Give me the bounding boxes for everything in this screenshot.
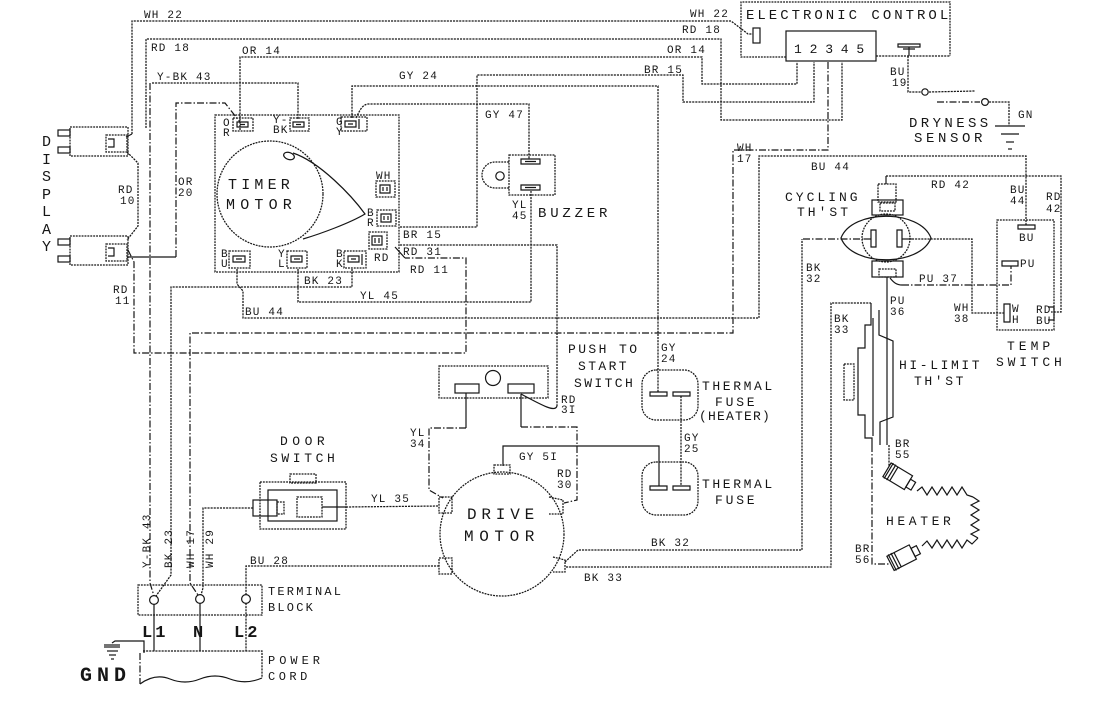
svg-text:CYCLING: CYCLING [785, 190, 861, 205]
svg-text:WH 22: WH 22 [144, 10, 183, 22]
svg-text:BU: BU [1036, 316, 1052, 328]
svg-text:BK 23: BK 23 [304, 276, 343, 288]
svg-text:L: L [278, 259, 286, 271]
svg-text:RD 31: RD 31 [403, 247, 442, 259]
svg-text:TEMP: TEMP [1007, 339, 1054, 354]
svg-text:THERMAL: THERMAL [702, 477, 775, 492]
svg-text:FUSE: FUSE [715, 493, 757, 508]
svg-text:PU: PU [1020, 259, 1036, 271]
svg-text:Y: Y [336, 127, 344, 139]
svg-text:HEATER: HEATER [886, 514, 954, 529]
svg-text:42: 42 [1046, 204, 1062, 216]
svg-text:32: 32 [806, 274, 822, 286]
svg-text:POWER: POWER [268, 654, 324, 668]
svg-text:SWITCH: SWITCH [574, 376, 635, 391]
svg-text:BUZZER: BUZZER [538, 206, 611, 222]
svg-text:BK 32: BK 32 [651, 538, 690, 550]
svg-text:RD 18: RD 18 [151, 43, 190, 55]
svg-text:BU: BU [1019, 233, 1035, 245]
svg-text:BK: BK [273, 125, 289, 137]
svg-text:BK 23: BK 23 [164, 529, 176, 568]
svg-text:TH'ST: TH'ST [797, 205, 851, 220]
svg-text:R: R [223, 128, 231, 140]
svg-text:RD 11: RD 11 [410, 265, 449, 277]
svg-text:44: 44 [1010, 196, 1026, 208]
svg-text:U: U [221, 259, 229, 271]
svg-text:56: 56 [855, 555, 871, 567]
svg-text:DOOR: DOOR [280, 434, 329, 449]
svg-text:SWITCH: SWITCH [996, 355, 1066, 370]
svg-text:BLOCK: BLOCK [268, 601, 315, 615]
svg-text:YL 35: YL 35 [371, 494, 410, 506]
svg-text:BK 33: BK 33 [584, 573, 623, 585]
svg-text:L: L [42, 204, 51, 221]
svg-text:Y-BK 43: Y-BK 43 [142, 513, 154, 568]
svg-text:RD: RD [1046, 192, 1062, 204]
svg-text:45: 45 [512, 211, 528, 223]
svg-text:3I: 3I [561, 405, 577, 417]
svg-text:DRYNESS: DRYNESS [909, 116, 992, 132]
svg-text:FUSE: FUSE [715, 395, 757, 410]
svg-text:Y-BK 43: Y-BK 43 [157, 72, 212, 84]
svg-text:PUSH TO: PUSH TO [568, 342, 639, 357]
svg-text:OR 14: OR 14 [242, 46, 281, 58]
svg-text:L1: L1 [142, 624, 168, 643]
svg-text:10: 10 [120, 196, 136, 208]
svg-text:TH'ST: TH'ST [914, 374, 966, 389]
svg-text:A: A [42, 222, 51, 239]
svg-text:20: 20 [178, 188, 194, 200]
svg-text:GN: GN [1018, 110, 1034, 122]
svg-text:TIMER: TIMER [228, 177, 294, 194]
svg-text:MOTOR: MOTOR [226, 197, 297, 214]
svg-text:THERMAL: THERMAL [702, 379, 775, 394]
svg-text:P: P [42, 187, 51, 204]
svg-text:34: 34 [410, 439, 426, 451]
svg-text:BU 44: BU 44 [245, 307, 284, 319]
svg-text:H: H [1012, 315, 1020, 327]
svg-text:GND: GND [80, 665, 131, 688]
svg-text:BU 44: BU 44 [811, 162, 850, 174]
svg-text:BU 28: BU 28 [250, 556, 289, 568]
svg-text:RD 18: RD 18 [682, 25, 721, 37]
svg-text:WH 22: WH 22 [690, 9, 729, 21]
svg-text:S: S [42, 169, 51, 186]
svg-text:GY 5I: GY 5I [519, 452, 558, 464]
svg-text:ELECTRONIC CONTROL: ELECTRONIC CONTROL [746, 8, 951, 24]
svg-text:30: 30 [557, 480, 573, 492]
svg-text:MOTOR: MOTOR [464, 528, 540, 546]
svg-text:D: D [42, 134, 51, 151]
svg-text:55: 55 [895, 450, 911, 462]
svg-text:36: 36 [890, 307, 906, 319]
svg-text:I: I [42, 152, 51, 169]
svg-text:R: R [367, 218, 375, 230]
svg-text:K: K [336, 259, 344, 271]
svg-text:L2: L2 [234, 624, 260, 643]
svg-text:17: 17 [737, 154, 753, 166]
svg-text:(HEATER): (HEATER) [699, 409, 771, 424]
svg-text:SENSOR: SENSOR [914, 131, 986, 147]
svg-text:BR 15: BR 15 [403, 230, 442, 242]
svg-text:RD 42: RD 42 [931, 180, 970, 192]
svg-text:GY 24: GY 24 [399, 71, 438, 83]
svg-text:25: 25 [684, 444, 700, 456]
svg-text:N: N [193, 624, 203, 643]
svg-text:38: 38 [954, 314, 970, 326]
svg-text:CORD: CORD [268, 670, 311, 684]
svg-text:1 2 3 4 5: 1 2 3 4 5 [794, 42, 864, 57]
svg-text:Y: Y [42, 239, 51, 256]
svg-text:TERMINAL: TERMINAL [268, 585, 343, 599]
svg-text:PU 37: PU 37 [919, 274, 958, 286]
svg-text:19: 19 [892, 78, 908, 90]
svg-text:DRIVE: DRIVE [467, 506, 539, 524]
svg-text:11: 11 [115, 296, 131, 308]
svg-text:START: START [578, 359, 629, 374]
svg-text:WH 17: WH 17 [186, 529, 198, 568]
svg-text:GY 47: GY 47 [485, 110, 524, 122]
svg-text:OR 14: OR 14 [667, 45, 706, 57]
svg-text:HI-LIMIT: HI-LIMIT [899, 358, 982, 373]
svg-text:WH 29: WH 29 [205, 529, 217, 568]
svg-text:24: 24 [661, 354, 677, 366]
svg-text:RD: RD [374, 253, 390, 265]
svg-text:YL 45: YL 45 [360, 291, 399, 303]
svg-text:33: 33 [834, 325, 850, 337]
svg-text:BR 15: BR 15 [644, 65, 683, 77]
svg-text:SWITCH: SWITCH [270, 451, 338, 466]
